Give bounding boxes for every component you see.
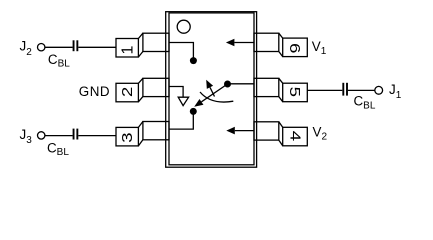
svg-text:3: 3: [119, 132, 136, 142]
svg-text:GND: GND: [79, 84, 110, 99]
svg-text:6: 6: [287, 43, 304, 53]
svg-text:5: 5: [287, 87, 304, 97]
svg-text:J2: J2: [20, 39, 33, 58]
svg-text:2: 2: [119, 87, 136, 97]
svg-text:CBL: CBL: [354, 94, 376, 112]
svg-text:V2: V2: [313, 124, 328, 142]
svg-text:J3: J3: [20, 127, 33, 146]
svg-text:V1: V1: [312, 39, 327, 57]
svg-text:J1: J1: [389, 82, 402, 101]
svg-text:1: 1: [119, 46, 136, 55]
svg-text:4: 4: [287, 131, 304, 141]
svg-text:CBL: CBL: [48, 52, 70, 70]
svg-text:CBL: CBL: [47, 140, 69, 158]
